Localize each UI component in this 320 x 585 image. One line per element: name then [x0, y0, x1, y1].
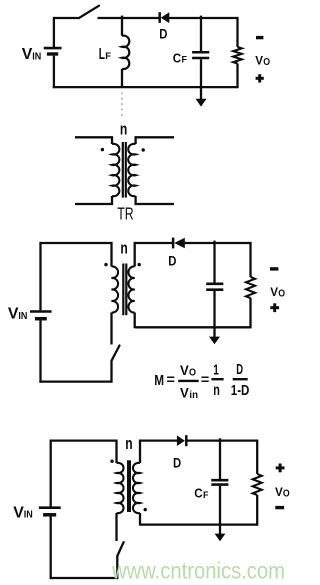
ground symbol (circuit 1)	[196, 99, 207, 107]
label LF	[99, 46, 111, 63]
svg-text:IN: IN	[24, 510, 33, 521]
svg-text:TR: TR	[117, 204, 133, 224]
wire: top horizontal primary side (circuit 4)	[51, 439, 117, 441]
svg-text:n: n	[213, 382, 220, 399]
transformer primary winding (circuit 3, 4 bumps)	[112, 266, 119, 312]
svg-text:www.cntronics.com: www.cntronics.com	[111, 558, 285, 584]
TR core (double bar)	[123, 142, 126, 198]
svg-text:1-D: 1-D	[231, 383, 250, 399]
wire: bottom horizontal of circuit 1	[53, 86, 238, 88]
battery VIN (circuit 3)	[30, 312, 52, 319]
capacitor plates (circuit 3)	[206, 284, 223, 290]
label VIN (circuit 1)	[22, 46, 42, 63]
ground symbol (circuit 3)	[209, 337, 220, 345]
TR polarity dot right	[142, 148, 145, 151]
transformer secondary winding (circuit 3, 4 bumps)	[128, 266, 134, 312]
svg-text:O: O	[283, 489, 290, 500]
label CF (circuit 1)	[173, 50, 187, 65]
diode D1 triangle	[161, 12, 170, 23]
switch S3 blade	[112, 346, 120, 361]
inductor LF: 3 winding bumps	[122, 36, 129, 69]
load resistor R3: top lead	[249, 242, 251, 277]
polarity dot left (circuit 4)	[110, 460, 113, 463]
wire: secondary top from diode to right corner (circuit 4)	[186, 439, 257, 441]
label plus (circuit 3 output)	[270, 303, 279, 312]
label VO (circuit 3)	[270, 285, 285, 300]
TR bottom-left stub wire	[75, 196, 112, 204]
capacitor CF plates	[192, 52, 209, 58]
wire: bottom horizontal secondary loop (circuit 3)	[135, 326, 251, 328]
svg-text:C: C	[173, 50, 182, 65]
svg-text:D: D	[236, 362, 243, 378]
ground stem (circuit 1)	[200, 87, 202, 99]
diode D1 (pointing left): cathode bar	[158, 12, 161, 23]
wire: secondary top from transformer to diode (circuit 3)	[135, 242, 173, 244]
svg-text:D: D	[168, 253, 176, 269]
transformer secondary bottom lead (circuit 3)	[134, 313, 136, 329]
diode D3 (pointing left): cathode bar	[172, 238, 175, 249]
load resistor R4: bottom lead	[256, 495, 258, 526]
battery VIN (circuit 1)	[44, 48, 62, 54]
svg-text:V: V	[275, 485, 283, 499]
TR polarity dot left	[101, 148, 104, 151]
polarity dot right (circuit 3)	[138, 263, 141, 266]
formula: fraction bar 1/n	[211, 378, 223, 380]
svg-text:in: in	[189, 389, 198, 401]
wire: top from diode to top-right corner	[169, 17, 238, 19]
transformer core (circuit 3)	[123, 264, 126, 316]
label plus (circuit 1 output)	[256, 74, 264, 82]
wire: bottom horizontal secondary loop (circuit 4)	[140, 523, 257, 525]
svg-text:n: n	[120, 121, 127, 139]
svg-text:O: O	[278, 288, 285, 299]
dotted connector line below LF	[121, 93, 123, 117]
inductor LF: bottom lead	[121, 69, 123, 87]
label VO (circuit 1)	[255, 54, 270, 69]
svg-text:O: O	[263, 57, 270, 68]
capacitor CF branch top lead (circuit 4)	[219, 438, 221, 479]
transformer primary bottom lead to switch (circuit 4)	[115, 513, 117, 541]
svg-text:F: F	[105, 51, 111, 62]
load resistor R4: top lead	[256, 440, 258, 475]
TR top-right stub wire	[136, 137, 174, 144]
formula: M =	[154, 372, 175, 389]
wire: left vertical lower (battery bottom lead)	[53, 56, 55, 88]
svg-text:C: C	[194, 486, 203, 501]
TR bottom-right stub wire	[136, 196, 174, 204]
battery VIN (circuit 4)	[39, 508, 61, 515]
wire: secondary top from diode to right corner (circuit 3)	[185, 242, 251, 244]
svg-text:V: V	[180, 385, 189, 400]
switch S1 blade (open)	[80, 6, 100, 18]
label minus (circuit 1 output)	[256, 36, 263, 39]
svg-text:D: D	[159, 25, 167, 41]
label minus (circuit 4 output)	[275, 506, 284, 509]
formula: numerator VO	[180, 363, 196, 378]
svg-text:M: M	[154, 372, 164, 389]
label plus (circuit 4 output)	[276, 464, 285, 473]
transformer core (circuit 4, solid bar)	[127, 460, 131, 512]
transformer primary winding (circuit 4, 5 bumps)	[117, 463, 124, 513]
label minus (circuit 3 output)	[270, 267, 278, 270]
wire: top from switch right contact to diode	[98, 17, 160, 19]
capacitor branch top lead (circuit 3)	[213, 241, 215, 283]
inductor LF: top lead	[121, 16, 123, 36]
label VIN (circuit 3)	[8, 306, 28, 323]
wire: left vertical lower (circuit 3)	[39, 320, 41, 382]
svg-text:n: n	[120, 240, 127, 258]
capacitor bottom lead (circuit 3)	[213, 291, 215, 327]
svg-text:n: n	[125, 435, 132, 453]
ground stem (circuit 4)	[219, 525, 221, 534]
svg-text:F: F	[203, 490, 209, 501]
transformer secondary top lead (circuit 4)	[139, 440, 141, 464]
switch S4 blade	[117, 542, 123, 556]
svg-text:IN: IN	[18, 311, 27, 322]
capacitor CF bottom lead	[200, 59, 202, 87]
capacitor CF plates (circuit 4)	[211, 480, 228, 484]
load resistor R4 zigzag	[253, 474, 262, 495]
ground symbol (circuit 4)	[215, 534, 226, 542]
svg-text:F: F	[182, 54, 188, 65]
TR secondary winding (right, 5 bumps)	[128, 144, 135, 196]
svg-text:=: =	[201, 372, 210, 387]
wire: left vertical upper (battery top lead, circuit 3)	[39, 242, 41, 311]
formula: fraction bar VO/Vin	[178, 380, 199, 382]
svg-text:IN: IN	[32, 51, 41, 62]
switch S4 bottom lead	[116, 556, 118, 579]
switch S3 bottom lead	[110, 361, 112, 383]
wire: left vertical upper (circuit 4)	[50, 440, 52, 507]
transformer primary top lead (circuit 4)	[115, 440, 117, 464]
capacitor CF bottom lead (circuit 4)	[219, 486, 221, 525]
svg-text:D: D	[173, 454, 181, 470]
svg-text:V: V	[180, 363, 189, 378]
transformer primary bottom lead to switch (circuit 3)	[110, 313, 112, 345]
svg-text:V: V	[270, 285, 278, 299]
formula: denominator Vin	[180, 385, 198, 401]
load resistor R1: bottom lead	[236, 64, 238, 89]
wire: left vertical upper (battery top lead)	[53, 17, 55, 47]
wire: left vertical lower (circuit 4)	[50, 516, 52, 579]
load resistor R1 zigzag	[233, 47, 242, 64]
load resistor R1: top lead	[236, 17, 238, 47]
ground stem (circuit 3)	[213, 327, 215, 337]
polarity dot left (circuit 3)	[104, 263, 107, 266]
transformer secondary bottom lead (circuit 4)	[139, 513, 141, 526]
wire: bottom horizontal primary loop (circuit 4)	[50, 577, 119, 579]
svg-text:O: O	[189, 366, 196, 378]
TR top-left stub wire	[75, 137, 112, 144]
diode D4 (pointing right) triangle	[177, 435, 185, 446]
wire: bottom horizontal primary loop (circuit 3)	[39, 380, 111, 382]
svg-text:=: =	[167, 372, 176, 387]
formula: fraction bar D/(1-D)	[233, 378, 248, 380]
capacitor CF branch: top lead	[200, 16, 202, 52]
svg-text:1: 1	[213, 363, 219, 379]
wire: secondary top from transformer to diode (circuit 4)	[140, 439, 177, 441]
load resistor R3: bottom lead	[249, 298, 251, 328]
diode D4 cathode bar	[185, 435, 188, 446]
svg-text:L: L	[99, 46, 105, 63]
wire: top-left horizontal from battery to switch	[54, 17, 80, 19]
TR primary winding (left, 5 bumps)	[112, 144, 119, 196]
label VO (circuit 4)	[275, 485, 290, 500]
diode D3 triangle	[174, 238, 185, 249]
transformer secondary top lead (circuit 3)	[134, 242, 136, 267]
transformer secondary winding (circuit 4, 5 bumps)	[133, 463, 140, 513]
label VIN (circuit 4)	[13, 504, 33, 521]
svg-text:V: V	[255, 54, 263, 68]
wire: top horizontal primary side	[41, 242, 112, 244]
polarity dot right (circuit 4)	[144, 508, 147, 511]
transformer primary top lead (circuit 3)	[110, 242, 112, 267]
label CF (circuit 4)	[194, 486, 208, 502]
load resistor R3 zigzag	[246, 277, 255, 298]
